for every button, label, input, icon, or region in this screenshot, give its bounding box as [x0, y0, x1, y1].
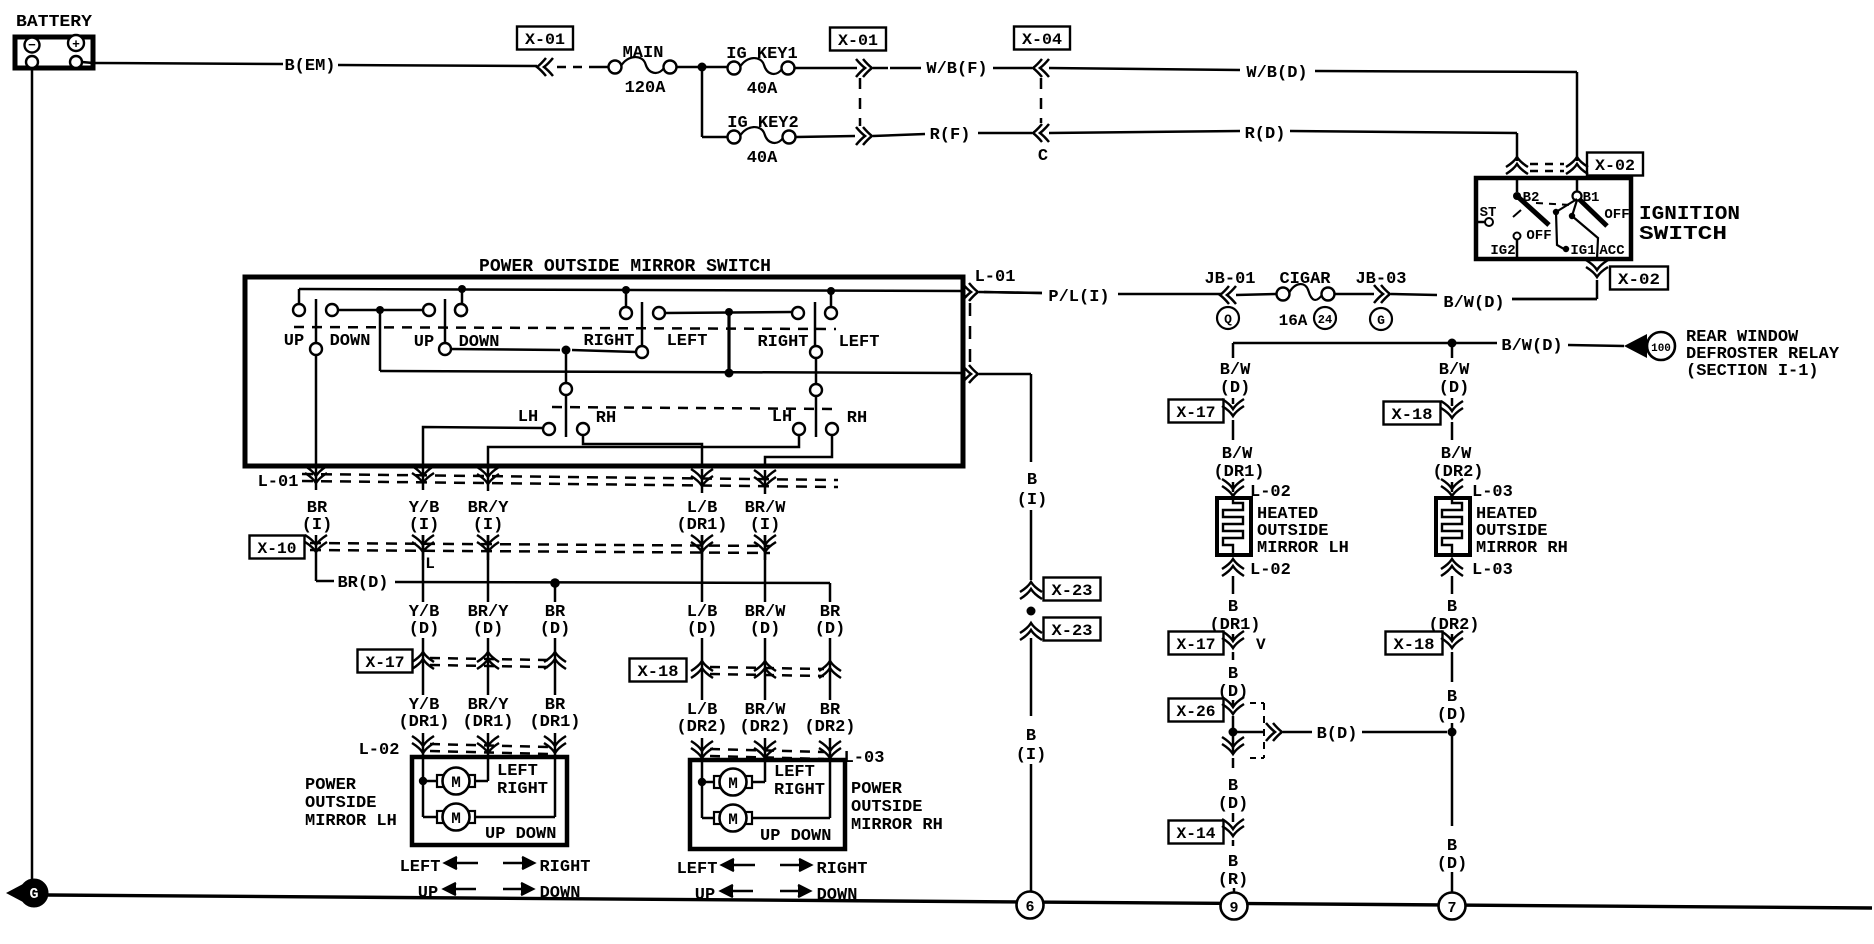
svg-text:(DR1): (DR1): [676, 516, 727, 535]
svg-text:B: B: [1228, 598, 1238, 617]
svg-text:L-01: L-01: [975, 268, 1016, 287]
svg-text:BATTERY: BATTERY: [16, 13, 93, 32]
svg-text:IG2: IG2: [1490, 243, 1515, 259]
svg-text:G: G: [29, 886, 38, 903]
svg-text:OUTSIDE: OUTSIDE: [851, 798, 922, 817]
svg-text:OFF: OFF: [1526, 228, 1551, 244]
svg-text:CIGAR: CIGAR: [1279, 270, 1331, 289]
svg-text:(I): (I): [750, 516, 781, 535]
svg-text:UP: UP: [284, 332, 304, 351]
svg-text:P/L(I): P/L(I): [1048, 288, 1109, 307]
svg-text:RIGHT: RIGHT: [774, 781, 825, 800]
svg-text:C: C: [1038, 147, 1048, 166]
svg-text:B: B: [1228, 853, 1238, 872]
svg-text:RH: RH: [596, 409, 616, 428]
svg-text:100: 100: [1651, 343, 1671, 355]
svg-text:OFF: OFF: [1604, 207, 1629, 223]
svg-text:(D): (D): [1220, 379, 1251, 398]
svg-text:V: V: [1256, 636, 1266, 654]
svg-text:RIGHT: RIGHT: [497, 780, 548, 799]
svg-text:B(EM): B(EM): [284, 57, 335, 76]
svg-text:UP: UP: [695, 886, 715, 905]
svg-text:(DR1): (DR1): [398, 713, 449, 732]
svg-text:OUTSIDE: OUTSIDE: [305, 794, 376, 813]
svg-text:IG KEY2: IG KEY2: [727, 114, 798, 133]
svg-text:L-03: L-03: [1472, 561, 1513, 580]
svg-text:BR(D): BR(D): [337, 574, 388, 593]
svg-text:LEFT: LEFT: [667, 332, 708, 351]
svg-text:(I): (I): [473, 516, 504, 535]
svg-text:LEFT: LEFT: [839, 333, 880, 352]
svg-text:X-17: X-17: [1177, 636, 1216, 654]
svg-text:X-18: X-18: [638, 663, 679, 681]
svg-text:(I): (I): [1017, 491, 1048, 510]
svg-text:(DR2): (DR2): [739, 718, 790, 737]
svg-text:(DR1): (DR1): [462, 713, 513, 732]
svg-text:X-01: X-01: [525, 31, 565, 49]
svg-text:MIRROR RH: MIRROR RH: [851, 816, 943, 835]
svg-text:POWER OUTSIDE MIRROR SWITCH: POWER OUTSIDE MIRROR SWITCH: [479, 257, 771, 277]
svg-text:(R): (R): [1218, 871, 1249, 890]
svg-text:LEFT: LEFT: [400, 858, 441, 877]
svg-text:40A: 40A: [747, 149, 778, 168]
svg-text:X-17: X-17: [366, 654, 405, 672]
svg-text:120A: 120A: [625, 79, 667, 98]
svg-text:X-02: X-02: [1618, 271, 1660, 289]
svg-text:UP: UP: [414, 333, 434, 352]
svg-text:G: G: [1377, 313, 1385, 328]
svg-text:(D): (D): [815, 620, 846, 639]
svg-text:X-26: X-26: [1177, 703, 1216, 721]
svg-text:LEFT: LEFT: [774, 763, 815, 782]
svg-text:−: −: [28, 38, 36, 53]
svg-text:UP DOWN: UP DOWN: [485, 825, 556, 844]
svg-text:ACC: ACC: [1599, 243, 1625, 259]
svg-text:B/W: B/W: [1222, 445, 1253, 464]
svg-text:M: M: [451, 810, 461, 828]
svg-text:W/B(D): W/B(D): [1246, 64, 1307, 83]
svg-text:B: B: [1447, 688, 1457, 707]
svg-text:7: 7: [1447, 900, 1456, 917]
svg-text:RIGHT: RIGHT: [539, 858, 590, 877]
svg-text:SWITCH: SWITCH: [1639, 223, 1727, 245]
svg-text:X-17: X-17: [1177, 404, 1216, 422]
svg-text:L-02: L-02: [1250, 561, 1291, 580]
svg-text:RH: RH: [847, 409, 867, 428]
svg-text:B(D): B(D): [1317, 725, 1358, 744]
svg-text:(DR1): (DR1): [1213, 463, 1264, 482]
svg-text:X-02: X-02: [1595, 157, 1635, 175]
svg-text:X-14: X-14: [1177, 825, 1216, 843]
svg-text:JB-03: JB-03: [1355, 270, 1406, 289]
svg-text:(I): (I): [302, 516, 333, 535]
svg-text:(D): (D): [473, 620, 504, 639]
svg-text:DOWN: DOWN: [330, 332, 371, 351]
svg-text:RIGHT: RIGHT: [583, 332, 634, 351]
svg-text:X-23: X-23: [1052, 582, 1093, 600]
svg-text:24: 24: [1318, 313, 1332, 327]
svg-text:B: B: [1447, 598, 1457, 617]
svg-text:X-18: X-18: [1394, 636, 1435, 654]
svg-text:(D): (D): [750, 620, 781, 639]
svg-text:40A: 40A: [747, 80, 778, 99]
svg-text:MAIN: MAIN: [623, 44, 664, 63]
svg-text:B/W: B/W: [1441, 445, 1472, 464]
svg-text:IG1: IG1: [1570, 243, 1595, 259]
svg-text:(D): (D): [409, 620, 440, 639]
svg-text:B/W(D): B/W(D): [1443, 294, 1504, 313]
svg-text:L-02: L-02: [1250, 483, 1291, 502]
svg-text:L-03: L-03: [844, 749, 885, 768]
svg-text:(DR1): (DR1): [529, 713, 580, 732]
svg-text:B/W(D): B/W(D): [1501, 337, 1562, 356]
svg-text:X-04: X-04: [1022, 31, 1062, 49]
svg-text:JB-01: JB-01: [1204, 270, 1255, 289]
svg-text:+: +: [72, 37, 80, 52]
svg-text:(D): (D): [1437, 706, 1468, 725]
svg-text:L-03: L-03: [1472, 483, 1513, 502]
svg-text:LEFT: LEFT: [497, 762, 538, 781]
svg-text:LEFT: LEFT: [677, 860, 718, 879]
svg-text:MIRROR LH: MIRROR LH: [1257, 539, 1349, 558]
svg-text:(I): (I): [409, 516, 440, 535]
svg-text:16A: 16A: [1279, 312, 1308, 330]
svg-text:DOWN: DOWN: [459, 333, 500, 352]
svg-text:LH: LH: [772, 408, 792, 427]
svg-text:L: L: [425, 555, 435, 573]
svg-text:RIGHT: RIGHT: [757, 333, 808, 352]
svg-text:(D): (D): [540, 620, 571, 639]
svg-text:M: M: [728, 775, 738, 793]
svg-text:IG KEY1: IG KEY1: [726, 45, 797, 64]
svg-text:POWER: POWER: [851, 780, 903, 799]
svg-text:6: 6: [1025, 899, 1034, 916]
svg-text:Q: Q: [1224, 312, 1232, 327]
svg-text:R(D): R(D): [1245, 125, 1286, 144]
svg-text:M: M: [451, 774, 461, 792]
svg-text:W/B(F): W/B(F): [926, 60, 987, 79]
svg-text:B: B: [1026, 727, 1036, 746]
svg-text:(D): (D): [687, 620, 718, 639]
svg-text:(D): (D): [1437, 855, 1468, 874]
svg-text:MIRROR LH: MIRROR LH: [305, 812, 397, 831]
svg-text:B: B: [1228, 665, 1238, 684]
svg-text:B/W: B/W: [1220, 361, 1251, 380]
svg-text:UP DOWN: UP DOWN: [760, 827, 831, 846]
svg-text:X-10: X-10: [258, 540, 297, 558]
svg-text:R(F): R(F): [930, 126, 971, 145]
svg-text:L-02: L-02: [359, 741, 400, 760]
svg-text:B: B: [1228, 777, 1238, 796]
svg-text:L-01: L-01: [258, 473, 299, 492]
svg-text:(DR2): (DR2): [804, 718, 855, 737]
svg-text:B: B: [1447, 837, 1457, 856]
svg-text:RIGHT: RIGHT: [816, 860, 867, 879]
svg-text:(I): (I): [1016, 746, 1047, 765]
svg-text:X-01: X-01: [838, 32, 878, 50]
svg-text:POWER: POWER: [305, 776, 357, 795]
svg-text:IGNITION: IGNITION: [1639, 203, 1740, 225]
svg-text:X-23: X-23: [1052, 622, 1093, 640]
svg-text:X-18: X-18: [1392, 406, 1433, 424]
svg-text:MIRROR RH: MIRROR RH: [1476, 539, 1568, 558]
svg-text:9: 9: [1229, 900, 1238, 917]
svg-text:(D): (D): [1218, 795, 1249, 814]
svg-text:LH: LH: [518, 408, 538, 427]
svg-text:(DR2): (DR2): [676, 718, 727, 737]
svg-text:B: B: [1027, 471, 1037, 490]
svg-text:M: M: [728, 811, 738, 829]
svg-text:(D): (D): [1439, 379, 1470, 398]
svg-text:(DR2): (DR2): [1432, 463, 1483, 482]
svg-text:(SECTION I-1): (SECTION I-1): [1686, 362, 1819, 381]
svg-text:B/W: B/W: [1439, 361, 1470, 380]
svg-text:UP: UP: [418, 884, 438, 903]
